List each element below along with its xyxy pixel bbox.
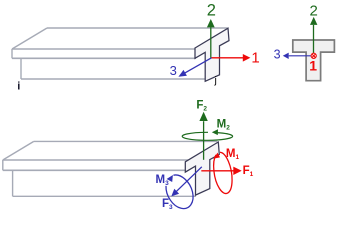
wire beam top-back edge [47,27,228,29]
wire beam top-left diagonal [12,28,47,49]
section stub 2 (T-shape) [185,142,219,195]
force F1 arrow (red right) [201,165,253,178]
axis 2 arrow (green) [310,2,318,53]
svg-text:1: 1 [251,49,259,66]
svg-text:3: 3 [274,47,281,61]
axis 2 arrow (green) [207,2,216,58]
moment M2 ellipse (green, about axis 2) [182,118,232,140]
wire beam flange left end [11,49,13,58]
moment M3 arc (blue, about axis 3) [156,174,194,208]
svg-text:2: 2 [310,2,318,19]
T cross-section outline [293,40,335,81]
axis 3 arrow (blue) [274,47,314,61]
moment M1 arc (red, about axis 1) [213,148,239,194]
wire beam top-front edge [12,48,196,50]
force F2 arrow (green up) [196,100,207,160]
wire beam2 web bottom edge [13,195,196,197]
axis 3 arrow (blue) [170,58,212,78]
svg-text:2: 2 [207,2,216,20]
svg-text:1: 1 [309,58,317,74]
wire beam2 top-front edge [3,159,188,161]
wire beam2 top-left diagonal [3,141,34,160]
wire beam2 top-back edge [34,140,218,142]
wire beam2 flange left end [2,160,4,170]
wire beam2 flange bottom edge [3,169,186,171]
wire beam web bottom edge [21,78,209,80]
axis 1 arrow (red) [212,49,260,66]
wire beam web left edge [20,58,22,79]
force F3 arrow (blue down-left) [162,167,202,211]
svg-text:3: 3 [170,63,177,78]
node j section stub (T-shape) [195,28,229,81]
svg-text:j: j [214,75,217,87]
wire beam flange bottom edge [12,57,196,59]
svg-text:i: i [17,80,20,92]
wire beam2 web left edge [12,170,14,196]
axis 1 symbol (into page) [311,53,316,58]
